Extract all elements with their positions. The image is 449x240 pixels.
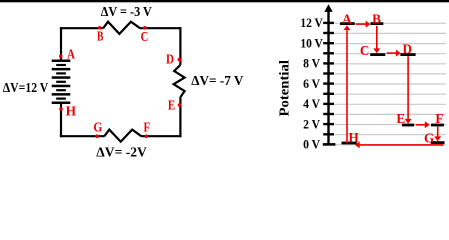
top border line: [0, 0, 449, 2]
graph y-axis tick 6 V: [323, 82, 334, 84]
graph arrow E to F (wire, 2 V): [416, 124, 426, 126]
graph gridline 11 V: [335, 32, 447, 34]
svg-text:6 V: 6 V: [303, 76, 321, 91]
wire: bottom side right segment (resistor R3 to bottom-right corner): [141, 135, 181, 137]
graph level bar E (2 V): [402, 124, 414, 127]
graph gridline 4 V: [335, 103, 447, 105]
node E (red dot, right wire): [178, 103, 182, 107]
svg-text:D: D: [166, 52, 174, 67]
battery V1 long plate 2: [52, 68, 71, 71]
resistor R1 (top, ΔV = -3 V) zigzag between B and C: [103, 22, 140, 34]
graph gridline 0 V: [335, 144, 447, 146]
graph gridline 2 V: [335, 124, 447, 126]
svg-text:2 V: 2 V: [303, 116, 321, 131]
svg-text:10 V: 10 V: [300, 35, 323, 50]
graph gridline 1 V: [335, 134, 447, 136]
node A (red dot on wire above battery): [59, 54, 63, 58]
node F (red dot, bottom wire): [145, 134, 149, 138]
svg-text:B: B: [372, 11, 381, 26]
svg-text:ΔV= -2V: ΔV= -2V: [96, 144, 147, 159]
graph gridline 3 V: [335, 113, 447, 115]
svg-text:C: C: [360, 43, 370, 58]
graph y-axis tick 4 V: [323, 103, 334, 105]
graph y-axis line: [327, 7, 329, 144]
battery V1 long plate 5: [52, 93, 71, 96]
svg-text:12 V: 12 V: [300, 15, 323, 30]
svg-text:Potential: Potential: [277, 60, 292, 117]
graph y-axis arrowhead: [324, 4, 333, 12]
battery V1 short plate 3: [56, 81, 66, 83]
graph level bar B (12 V): [371, 22, 384, 25]
graph arrow F to G (resistor drop -2 V): [437, 127, 439, 137]
svg-text:0 V: 0 V: [303, 137, 321, 152]
svg-text:H: H: [348, 130, 359, 145]
graph gridline 6 V: [335, 83, 447, 85]
graph level bar F (2 V): [431, 124, 444, 127]
graph arrow G to H (wire, 0 V): [359, 144, 443, 146]
battery V1 long plate 3: [52, 76, 71, 79]
svg-text:8 V: 8 V: [303, 56, 321, 71]
graph y-axis tick 8 V: [323, 62, 334, 64]
graph gridline 12 V: [335, 22, 447, 24]
svg-text:A: A: [67, 47, 76, 62]
svg-text:C: C: [141, 30, 149, 45]
graph gridline 9 V: [335, 53, 447, 55]
svg-text:H: H: [66, 105, 77, 120]
graph y-axis tick 12 V: [323, 22, 334, 24]
svg-text:ΔV= -7 V: ΔV= -7 V: [191, 73, 243, 88]
graph arrow C to D (wire, 9 V): [387, 52, 397, 54]
graph y-axis tick 3 V: [323, 113, 334, 115]
wire: left side upper (A to top-left corner): [60, 27, 62, 60]
graph level bar C (9 V): [370, 53, 385, 56]
graph arrow D to E (resistor drop -7 V): [407, 56, 409, 119]
svg-text:ΔV=12 V: ΔV=12 V: [3, 80, 49, 95]
svg-text:A: A: [342, 11, 352, 26]
graph y-axis tick 1 V: [323, 133, 334, 135]
wire: top side left segment (corner to resistor R1): [60, 27, 103, 29]
battery V1 (ΔV=12 V) plates: long plate 1: [52, 60, 71, 63]
graph y-axis end tick 0 V: [323, 143, 336, 146]
node G (red dot, bottom wire): [95, 134, 99, 138]
svg-text:ΔV = -3 V: ΔV = -3 V: [101, 4, 152, 19]
resistor R2 (right, ΔV= -7 V) zigzag between D and E: [174, 65, 185, 97]
battery V1 short plate 4: [56, 89, 66, 91]
svg-text:F: F: [435, 111, 443, 126]
svg-text:E: E: [168, 98, 175, 113]
svg-text:E: E: [396, 111, 405, 126]
wire: left side lower (battery bottom to bottom-left corner): [60, 103, 62, 137]
svg-text:4 V: 4 V: [303, 96, 321, 111]
graph y-axis tick 10 V: [323, 42, 334, 44]
graph y-axis tick 7 V: [323, 72, 334, 74]
svg-text:G: G: [424, 131, 434, 146]
node B (red dot, top wire): [98, 26, 102, 30]
battery V1 short plate 2: [56, 72, 66, 74]
svg-text:B: B: [97, 30, 103, 45]
resistor R3 (bottom, ΔV= -2V) zigzag between G and F: [104, 130, 141, 142]
graph level bar D (9 V): [400, 53, 415, 56]
graph gridline 8 V: [335, 63, 447, 65]
battery V1 long plate 4: [52, 85, 71, 88]
graph level bar A (12 V): [340, 22, 355, 25]
graph y-axis tick 9 V: [323, 52, 334, 54]
graph level bar G (0 V): [431, 141, 445, 144]
graph level bar H (0 V): [342, 142, 357, 145]
battery V1 short plate 1: [56, 64, 66, 66]
node D (red dot, right wire): [178, 58, 182, 62]
graph arrow B to C (resistor drop -3 V): [376, 26, 378, 49]
svg-text:D: D: [403, 41, 413, 56]
graph arrow A to B (wire, 12 V): [356, 23, 367, 25]
wire: right side lower (resistor R2 to bottom-right corner): [179, 97, 181, 137]
node C (red dot, top wire): [143, 26, 147, 30]
svg-text:F: F: [144, 120, 151, 135]
node H (red dot on wire below battery): [59, 107, 63, 111]
wire: bottom side left segment (corner to resistor R3): [60, 135, 105, 137]
battery V1 short plate 5: [56, 98, 66, 100]
graph y-axis tick 2 V: [323, 123, 334, 125]
wire: right side upper (corner to resistor R2): [179, 27, 181, 65]
graph gridline 5 V: [335, 93, 447, 95]
graph y-axis tick 11 V: [323, 32, 334, 34]
graph gridline 7 V: [335, 73, 447, 75]
wire: top side right segment (resistor R1 to top-right corner): [140, 27, 182, 29]
graph arrow H to A (battery rise +12 V): [346, 30, 348, 144]
battery V1 long plate 6: [52, 102, 71, 105]
graph gridline 10 V: [335, 43, 447, 45]
graph y-axis tick 5 V: [323, 93, 334, 95]
svg-text:G: G: [93, 120, 102, 135]
